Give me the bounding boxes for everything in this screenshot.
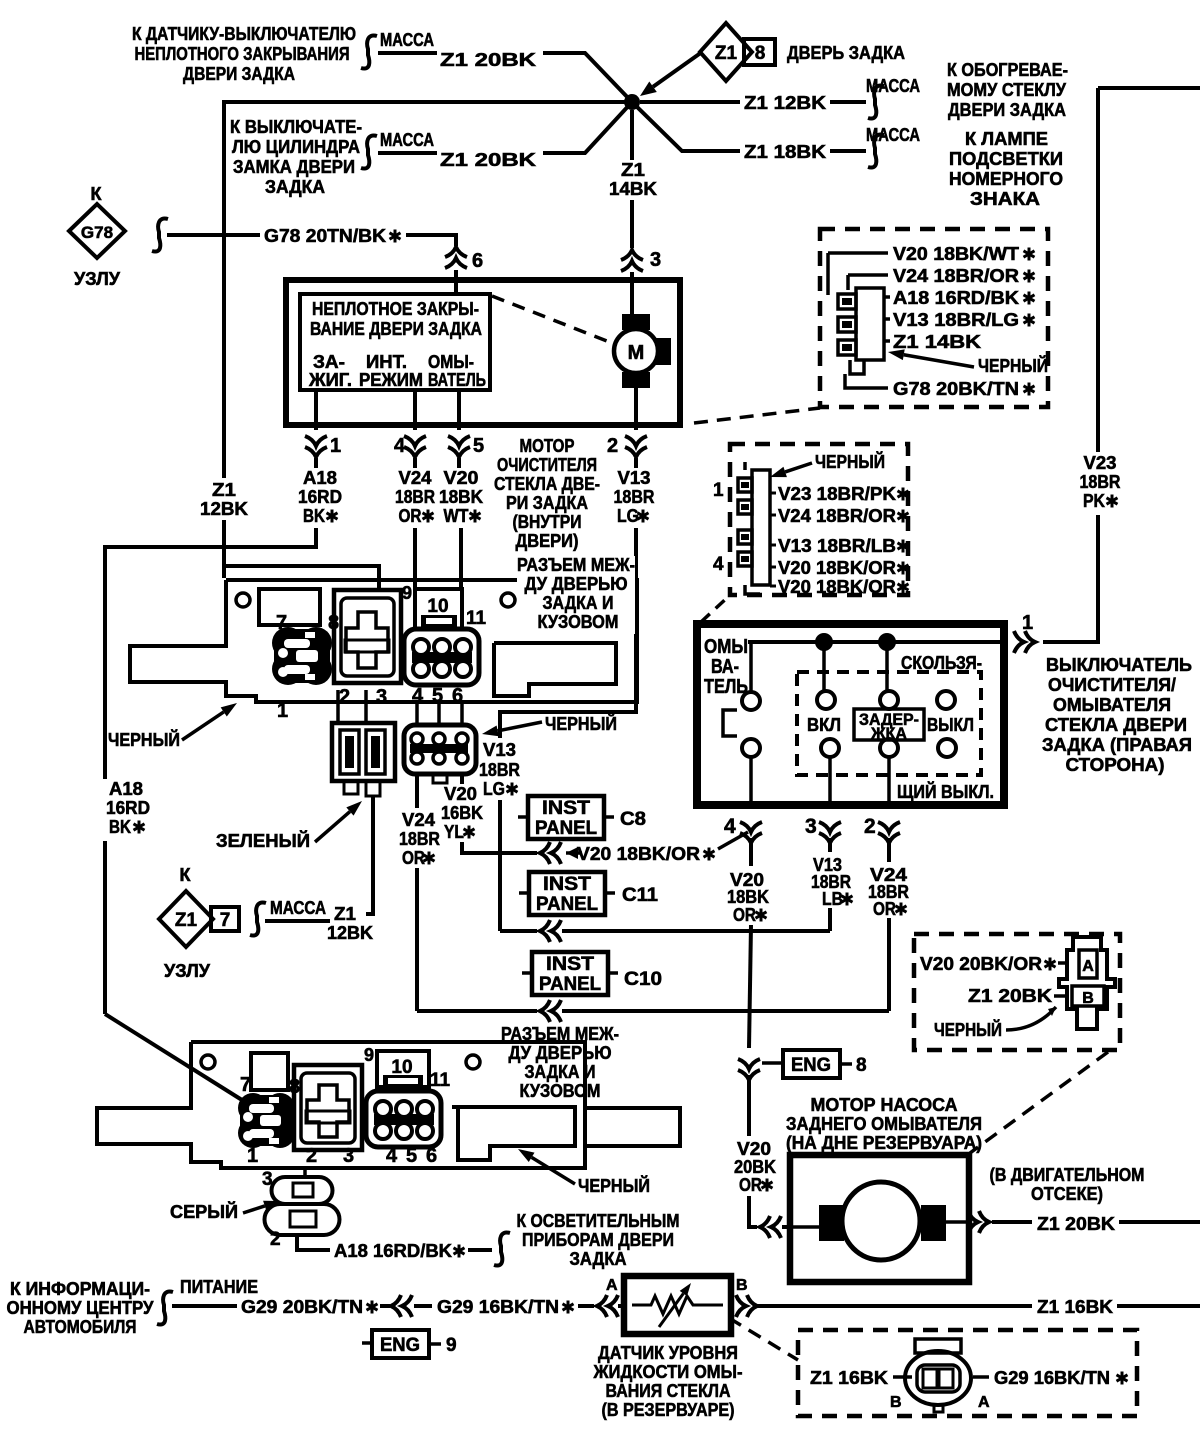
svg-text:2: 2 [864,815,876,838]
svg-text:BK: BK [109,817,131,837]
svg-text:1: 1 [247,1145,258,1167]
bracket G78 [152,218,168,251]
svg-text:10: 10 [391,1057,412,1078]
wire row C10 V24 [417,1009,537,1013]
labels box2 wires [770,492,776,495]
component INST PANEL C8 [528,796,604,839]
svg-text:18BR: 18BR [1080,472,1121,492]
svg-text:Z1 12BK: Z1 12BK [744,93,826,113]
wire pin1 A18 stub [314,390,318,430]
svg-text:ВЫКЛ: ВЫКЛ [927,715,974,735]
svg-text:ЧЕРНЫЙ: ЧЕРНЫЙ [578,1175,650,1196]
svg-text:ЧЕРНЫЙ: ЧЕРНЫЙ [934,1019,1002,1040]
wire Z1 12BK left vertical [224,102,632,478]
wire V23 vertical right side top [1098,86,1200,90]
mounting hole right p2 [466,1055,480,1069]
wire V13 from motor down right of panel1 [634,458,638,468]
wire 4 V20 down to pump [749,925,751,1048]
svg-text:РАЗЪЕМ МЕЖ-: РАЗЪЕМ МЕЖ- [517,555,635,575]
svg-text:ОМЫ-: ОМЫ- [428,352,474,372]
connector C2-3 square (panel2) [294,1065,362,1150]
bracket to sensor-switch [361,35,377,68]
svg-text:ОЧИСТИТЕЛЯ: ОЧИСТИТЕЛЯ [497,455,597,475]
label G29 16BK/TN* box4 [973,1375,989,1379]
wire pin5 V20 stub [457,390,461,430]
wire 3 V13 to C11 row [828,908,832,931]
svg-text:A: A [978,1394,990,1411]
svg-text:A18 16RD/BK: A18 16RD/BK [893,288,1019,308]
wire stubs panel1 to green [336,690,340,723]
svg-text:ДВЕРИ ЗАДКА: ДВЕРИ ЗАДКА [948,100,1066,120]
svg-text:Z1: Z1 [175,910,198,931]
connector C4-6 six pin (panel1) [404,629,479,685]
wire Z1 18BK license lamp [632,102,740,151]
svg-text:(ВНУТРИ: (ВНУТРИ [513,512,582,532]
svg-text:Z1 20BK: Z1 20BK [440,50,536,70]
svg-text:НЕПЛОТНОГО ЗАКРЫВАНИЯ: НЕПЛОТНОГО ЗАКРЫВАНИЯ [135,44,350,64]
inline connector ENG9 on G29 wire [391,1295,412,1317]
svg-text:A: A [606,1277,618,1294]
svg-text:G29 16BK/TN: G29 16BK/TN [994,1368,1110,1388]
svg-text:ДВЕРИ ЗАДКА: ДВЕРИ ЗАДКА [183,64,295,84]
svg-text:V20 20BK/OR: V20 20BK/OR [920,954,1042,974]
svg-text:18BK: 18BK [439,487,483,507]
svg-text:8: 8 [328,612,339,634]
svg-text:PANEL: PANEL [535,818,597,839]
bracket to door lighting [494,1232,510,1265]
mounting hole right [501,593,515,607]
svg-text:8: 8 [289,1076,300,1098]
svg-text:ВАНИЯ СТЕКЛА: ВАНИЯ СТЕКЛА [606,1381,731,1401]
svg-text:МАССА: МАССА [866,76,920,96]
svg-text:ЗЕЛЕНЫЙ: ЗЕЛЕНЫЙ [216,830,310,851]
wire A18 diagonal into panel2 connector [105,1014,242,1100]
svg-text:Z1 20BK: Z1 20BK [440,150,536,170]
svg-text:9: 9 [402,583,412,603]
svg-text:Z1 20BK: Z1 20BK [1037,1214,1115,1234]
svg-text:6: 6 [426,1145,437,1167]
svg-text:ЖИГ.: ЖИГ. [308,370,352,390]
svg-text:ПОДСВЕТКИ: ПОДСВЕТКИ [949,149,1063,169]
svg-text:C11: C11 [622,885,658,906]
svg-text:INST: INST [542,798,590,819]
svg-text:МОТОР НАСОСА: МОТОР НАСОСА [811,1095,958,1115]
svg-text:9: 9 [446,1335,457,1356]
svg-text:ЗАДНЕГО ОМЫВАТЕЛЯ: ЗАДНЕГО ОМЫВАТЕЛЯ [786,1114,982,1134]
svg-text:6: 6 [472,250,483,272]
svg-text:INST: INST [543,874,591,895]
svg-text:ЛЮ ЦИЛИНДРА: ЛЮ ЦИЛИНДРА [232,137,360,157]
cavity 10 box (panel1) [415,589,462,629]
wire switch top bus [748,640,1000,644]
svg-text:ВАНИЕ ДВЕРИ ЗАДКА: ВАНИЕ ДВЕРИ ЗАДКА [310,319,482,339]
svg-text:LG: LG [483,779,505,799]
вкл column [822,642,826,691]
wire to diamond Z1-8 with arrow [653,52,702,87]
svg-text:3: 3 [650,249,661,271]
svg-text:ЗНАКА: ЗНАКА [970,189,1040,209]
svg-text:К: К [91,184,103,204]
wire Z1 20BK lock cylinder [378,151,437,155]
svg-text:ВЫКЛЮЧАТЕЛЬ: ВЫКЛЮЧАТЕЛЬ [1046,655,1192,675]
wire pin2 V13 chevron [634,425,638,430]
svg-text:ОМЫВАТЕЛЯ: ОМЫВАТЕЛЯ [1053,695,1171,715]
svg-text:16RD: 16RD [106,798,150,818]
svg-text:УЗЛУ: УЗЛУ [164,961,211,981]
component washer fluid level sensor [624,1276,731,1334]
svg-text:C10: C10 [624,969,662,990]
cavity 10 box (panel2) [377,1051,429,1087]
svg-text:OR: OR [873,899,896,919]
svg-text:A: A [1082,958,1094,975]
svg-text:НОМЕРНОГО: НОМЕРНОГО [949,169,1063,189]
svg-text:ДВЕРЬ ЗАДКА: ДВЕРЬ ЗАДКА [787,43,905,63]
inline connector 3 on Z1 14BK [621,250,643,271]
svg-text:4: 4 [713,554,724,575]
connector C1 round (panel1) [272,627,332,685]
svg-text:18BR: 18BR [479,760,520,780]
svg-text:ЧЕРНЫЙ: ЧЕРНЫЙ [815,451,885,472]
component ENG 8 [762,1061,783,1065]
wire Z1 20BK top [378,51,437,55]
задержка box [854,709,924,740]
svg-text:ОМЫ: ОМЫ [704,636,748,658]
svg-text:2: 2 [607,435,618,457]
wire V24 pin4 to panel1 [413,458,417,468]
svg-text:ЧЕРНЫЙ: ЧЕРНЫЙ [545,713,617,734]
svg-text:OR: OR [733,905,756,925]
pointer to wire4 [718,832,748,849]
задержка column [885,642,889,691]
svg-text:Z1 14BK: Z1 14BK [893,332,981,352]
wire 2 V24 to C10 row [887,918,891,1011]
inline connector sensor A [597,1295,618,1317]
svg-text:ДВЕРИ): ДВЕРИ) [516,531,579,551]
svg-text:A18 16RD/BK: A18 16RD/BK [334,1241,452,1261]
svg-text:5: 5 [473,435,484,457]
dashed pointer box3 to pump [970,1052,1108,1153]
svg-text:V24 18BR/OR: V24 18BR/OR [893,266,1019,286]
svg-text:LG: LG [617,506,639,526]
wire row C8 V20 [540,842,561,864]
svg-text:PANEL: PANEL [536,894,598,915]
wire V20 16BK YL* from black connector [460,774,464,784]
connector C4-6 six pin (panel2) [366,1091,441,1147]
dashed box sensor connector [798,1330,1137,1416]
bracket питание [157,1291,173,1324]
connector C1 round (panel2) [238,1093,295,1148]
svg-text:G78 20TN/BK: G78 20TN/BK [264,226,386,246]
svg-text:1: 1 [1022,612,1033,634]
svg-text:ЩИЙ ВЫКЛ.: ЩИЙ ВЫКЛ. [897,781,994,802]
label G78 20BK/TN* [845,374,888,388]
svg-text:Z1: Z1 [621,160,645,180]
svg-text:V20: V20 [737,1139,771,1159]
svg-text:ПИТАНИЕ: ПИТАНИЕ [180,1277,258,1297]
svg-text:ОННОМУ ЦЕНТРУ: ОННОМУ ЦЕНТРУ [7,1298,155,1318]
cavity 7 rectangle [259,589,320,625]
wire Z1 12BK right branch [640,100,740,104]
cavity 7 rectangle p2 [251,1053,288,1090]
svg-text:СТОРОНА): СТОРОНА) [1066,755,1165,775]
plate 2 stepped cutout [452,1107,575,1160]
svg-text:3: 3 [805,815,817,838]
cross inside C2-3 [346,612,388,668]
svg-text:ДУ ДВЕРЬЮ: ДУ ДВЕРЬЮ [509,1043,612,1063]
svg-text:18BR: 18BR [395,487,435,507]
svg-text:К ДАТЧИКУ-ВЫКЛЮЧАТЕЛЮ: К ДАТЧИКУ-ВЫКЛЮЧАТЕЛЮ [132,24,356,44]
svg-text:V24 18BR/OR: V24 18BR/OR [778,506,896,526]
svg-text:7: 7 [220,910,231,931]
svg-text:11: 11 [466,608,487,629]
svg-text:Z1: Z1 [212,480,236,500]
svg-text:СТЕКЛА ДВЕ-: СТЕКЛА ДВЕ- [494,474,600,494]
svg-text:РИ ЗАДКА: РИ ЗАДКА [506,493,588,513]
component: rear wiper/washer switch box [697,624,1004,805]
wire G29 20BK/TN* [172,1304,237,1308]
washer contact column [749,642,753,692]
connector C2-3 square (panel1) [334,590,401,683]
dashed pointer box1 to motor box [694,408,820,423]
bracket Z1-7 [250,902,266,935]
svg-text:C8: C8 [620,809,646,830]
svg-text:КУЗОВОМ: КУЗОВОМ [538,612,619,632]
svg-text:К ОСВЕТИТЕЛЬНЫМ: К ОСВЕТИТЕЛЬНЫМ [517,1211,680,1231]
component ENG 9 [362,1341,372,1345]
svg-text:V13: V13 [483,740,516,760]
svg-text:ЧЕРНЫЙ: ЧЕРНЫЙ [108,729,180,750]
svg-text:1: 1 [277,700,288,722]
component INST PANEL C10 [532,952,608,995]
svg-text:2: 2 [306,1145,317,1167]
svg-text:ОТСЕКЕ): ОТСЕКЕ) [1031,1184,1103,1204]
svg-text:20BK: 20BK [734,1157,776,1177]
wire V24 from black connector down [415,774,419,808]
svg-text:V23: V23 [1084,453,1117,473]
svg-text:ОЧИСТИТЕЛЯ/: ОЧИСТИТЕЛЯ/ [1048,675,1176,695]
svg-text:16RD: 16RD [298,487,342,507]
svg-text:ЗА-: ЗА- [313,352,345,372]
svg-text:ДУ ДВЕРЬЮ: ДУ ДВЕРЬЮ [525,574,628,594]
svg-text:СТЕКЛА ДВЕРИ: СТЕКЛА ДВЕРИ [1045,715,1187,735]
svg-text:V20 18BK/OR: V20 18BK/OR [778,558,896,578]
svg-text:B: B [1082,990,1094,1007]
inner box ajar switch [300,294,490,390]
svg-text:(НА ДНЕ РЕЗЕРВУАРА): (НА ДНЕ РЕЗЕРВУАРА) [786,1133,982,1153]
svg-text:OR: OR [739,1175,762,1195]
wires to labels box1 [828,253,888,295]
junction dot Z1 splice [624,94,640,110]
dashed box pump connector [914,934,1120,1050]
svg-text:OR: OR [399,506,422,526]
svg-text:10: 10 [427,596,448,617]
dashed line inner box to motor [492,296,612,343]
svg-text:К ВЫКЛЮЧАТЕ-: К ВЫКЛЮЧАТЕ- [230,117,362,137]
svg-text:V20: V20 [444,468,479,488]
svg-text:СКОЛЬЗЯ-: СКОЛЬЗЯ- [901,653,982,673]
svg-text:ИНТ.: ИНТ. [366,352,407,372]
svg-text:(В ДВИГАТЕЛЬНОМ: (В ДВИГАТЕЛЬНОМ [990,1165,1145,1185]
switch pin 2 [878,822,900,843]
svg-text:5: 5 [406,1145,417,1167]
comb connector symbol box1 [838,288,884,374]
svg-text:A18: A18 [109,779,143,799]
svg-text:К ИНФОРМАЦИ-: К ИНФОРМАЦИ- [10,1279,150,1299]
svg-text:V20: V20 [444,784,477,804]
dashed box motor connector [820,229,1048,407]
mounting hole left [236,593,250,607]
svg-text:OR: OR [402,848,425,868]
svg-text:МОМУ СТЕКЛУ: МОМУ СТЕКЛУ [947,80,1067,100]
svg-text:16BK: 16BK [441,803,483,823]
svg-text:12BK: 12BK [200,499,248,519]
svg-text:ENG: ENG [380,1335,420,1356]
svg-text:Z1: Z1 [334,904,356,924]
svg-text:К ОБОГРЕВАЕ-: К ОБОГРЕВАЕ- [947,60,1068,80]
svg-text:4: 4 [386,1145,398,1167]
svg-text:3: 3 [262,1169,273,1190]
wire pin4 V24 stub [413,390,417,430]
svg-text:ЧЕРНЫЙ: ЧЕРНЫЙ [978,355,1048,376]
wire Z1 12BK branch to cavity 8 [224,566,379,592]
svg-text:4: 4 [394,435,406,457]
svg-text:ТЕЛЬ: ТЕЛЬ [704,676,748,698]
svg-text:A18: A18 [303,468,337,488]
junction dot bus 1 [815,633,833,651]
component rear washer pump motor [790,1155,969,1282]
svg-text:АВТОМОБИЛЯ: АВТОМОБИЛЯ [24,1317,137,1337]
svg-text:1: 1 [713,480,724,501]
svg-text:8: 8 [856,1055,867,1076]
svg-text:B: B [890,1394,902,1411]
svg-text:G29 16BK/TN: G29 16BK/TN [437,1297,559,1317]
svg-text:V23 18BR/PK: V23 18BR/PK [778,484,896,504]
variable resistor symbol [632,1296,723,1314]
svg-text:2: 2 [270,1229,281,1250]
svg-text:ЗАДКА: ЗАДКА [570,1249,627,1269]
svg-text:V13 18BR/LG: V13 18BR/LG [893,310,1019,330]
wire row C11 V13 [500,929,537,933]
svg-text:ЗАДКА И: ЗАДКА И [543,593,614,613]
motor M symbol [622,314,650,330]
svg-text:(В РЕЗЕРВУАРЕ): (В РЕЗЕРВУАРЕ) [602,1400,735,1420]
dashed pointer sensor to box4 [729,1318,798,1360]
svg-text:МАССА: МАССА [380,30,434,50]
svg-text:B: B [736,1277,748,1294]
svg-text:G78: G78 [81,223,113,242]
svg-text:14BK: 14BK [609,179,657,199]
wire Z1 16BK [754,1304,1032,1308]
svg-text:LB: LB [822,889,843,909]
inline connector sensor B output [736,1295,757,1317]
svg-text:МАССА: МАССА [380,130,434,150]
inline connector 6 on G78 wire [445,247,467,268]
svg-text:ЗАДКА: ЗАДКА [265,177,325,197]
svg-text:РЕЖИМ: РЕЖИМ [359,370,423,390]
svg-text:INST: INST [546,954,594,975]
connector symbol box4 oval [905,1339,971,1412]
svg-text:К: К [180,865,192,885]
svg-text:КУЗОВОМ: КУЗОВОМ [520,1081,601,1101]
svg-text:PK: PK [1083,491,1105,511]
svg-text:МАССА: МАССА [270,898,326,918]
svg-text:BK: BK [303,506,325,526]
connector plate 1 outline [130,580,637,702]
junction dot bus 2 [878,633,896,651]
svg-text:М: М [628,342,645,364]
svg-text:ПРИБОРАМ ДВЕРИ: ПРИБОРАМ ДВЕРИ [522,1230,674,1250]
wire G78 20TN/BK [167,233,260,237]
svg-text:ЗАМКА ДВЕРИ: ЗАМКА ДВЕРИ [233,157,355,177]
svg-text:9: 9 [364,1045,374,1065]
svg-text:НЕПЛОТНОЕ ЗАКРЫ-: НЕПЛОТНОЕ ЗАКРЫ- [312,299,479,319]
svg-text:12BK: 12BK [327,923,373,943]
wire grey connector to A18 label [297,1235,330,1250]
svg-text:V13: V13 [618,468,651,488]
wire stubs panel1 to black [415,702,419,725]
switch pin 4 [740,822,762,843]
connector black (below panel1) [404,725,476,774]
svg-text:2: 2 [339,686,350,708]
dashed pointer box2 to switch [701,596,729,622]
wire green connector to MACCA [366,797,373,914]
svg-text:3: 3 [376,686,387,708]
svg-text:ENG: ENG [791,1055,831,1076]
svg-text:ВА-: ВА- [711,656,739,678]
connector green (below panel1) [332,723,395,781]
svg-text:18BK: 18BK [727,887,769,907]
wire V13 to C11 row [498,800,502,931]
wire stub panel2 to grey [303,1168,307,1177]
svg-text:СЕРЫЙ: СЕРЫЙ [170,1201,238,1222]
svg-text:ЖИДКОСТИ ОМЫ-: ЖИДКОСТИ ОМЫ- [593,1362,743,1382]
svg-text:PANEL: PANEL [539,974,601,995]
svg-text:ДАТЧИК УРОВНЯ: ДАТЧИК УРОВНЯ [598,1343,738,1363]
svg-text:7: 7 [240,1074,251,1096]
connector diamond Z1 8 дверь задка [700,23,752,81]
svg-text:V24: V24 [402,810,435,830]
svg-text:1: 1 [330,435,341,457]
svg-text:18BR: 18BR [399,829,440,849]
svg-text:G78 20BK/TN: G78 20BK/TN [893,379,1019,399]
svg-text:Z1: Z1 [715,43,738,64]
dashed detent box [797,672,981,775]
svg-text:МОТОР: МОТОР [520,436,575,456]
svg-text:V13 18BR/LB: V13 18BR/LB [778,536,896,556]
plate 1 stepped cutout [494,643,616,696]
svg-text:V20 18BK/OR: V20 18BK/OR [778,577,896,597]
svg-text:Z1 20BK: Z1 20BK [968,986,1052,1006]
svg-text:WT: WT [444,506,469,526]
mounting hole left p2 [201,1055,215,1069]
connector plate 2 outline [97,1042,585,1168]
dashed box switch connector [730,444,908,595]
svg-text:11: 11 [430,1070,451,1091]
comb connector symbol box2 [738,462,770,594]
svg-text:8: 8 [755,43,766,64]
svg-text:18BR: 18BR [614,487,655,507]
svg-text:V24: V24 [399,468,432,488]
svg-text:МАССА: МАССА [866,125,920,145]
svg-text:Z1 18BK: Z1 18BK [744,142,826,162]
connector symbol box3 [1059,937,1115,1029]
bracket 2 [361,135,377,168]
switch pin 3 [819,822,841,843]
svg-text:К ЛАМПЕ: К ЛАМПЕ [965,129,1048,149]
svg-text:Z1 16BK: Z1 16BK [1037,1297,1113,1317]
svg-text:УЗЛУ: УЗЛУ [74,269,121,289]
plate 2 right arm [585,1108,680,1146]
